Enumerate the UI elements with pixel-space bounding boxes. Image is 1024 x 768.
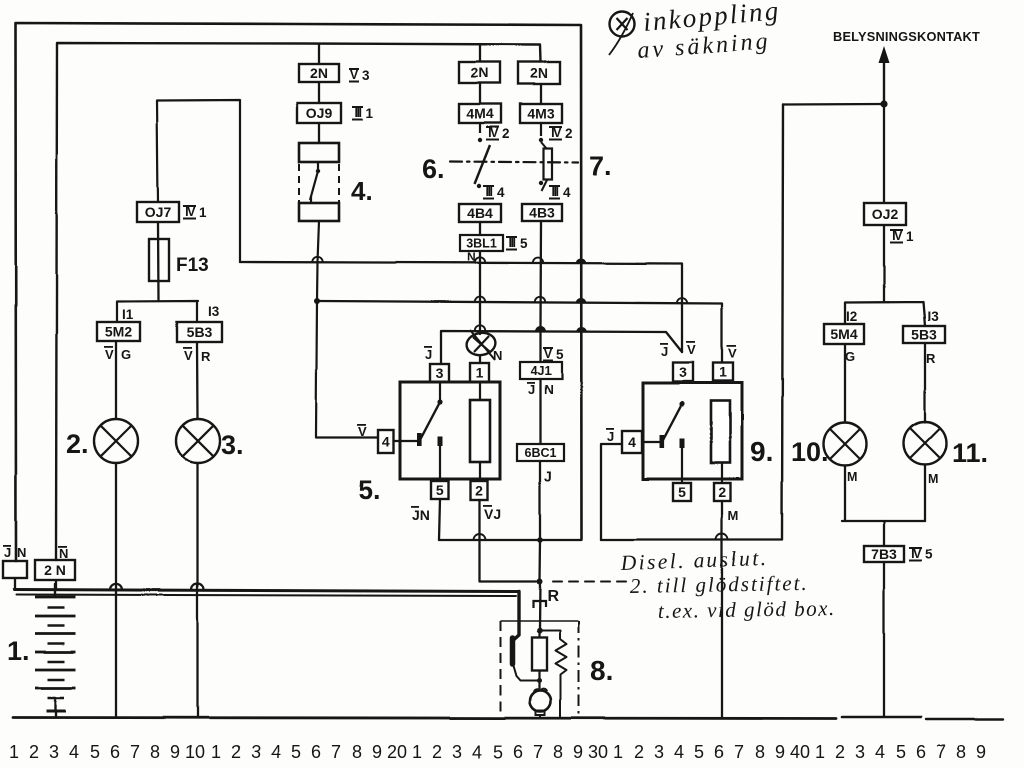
line3 (y331) to element5 pin3 and element9 pin3 [441,331,682,364]
svg-text:2 N: 2 N [44,562,66,578]
lamp 2 [94,419,138,463]
svg-text:M: M [928,472,938,486]
svg-text:1: 1 [412,742,422,762]
svg-text:3: 3 [49,742,59,762]
dashed wire to note text [553,581,626,583]
resistor (rect) element8 [532,638,547,671]
svg-text:9: 9 [775,742,785,762]
svg-text:6: 6 [110,742,120,762]
svg-text:1: 1 [719,364,727,380]
svg-text:V: V [350,68,359,82]
connector 4B3 [522,204,562,221]
svg-text:6: 6 [513,742,523,762]
wire lamp11 down [924,465,926,521]
svg-text:3.: 3. [221,430,244,460]
svg-text:V: V [358,424,367,439]
line1 (y262) to element9 pin3 [240,262,682,352]
wire right vertical to lighting line [782,105,783,540]
svg-text:R: R [201,349,211,364]
battery 1 [35,597,76,717]
element 5 (switch unit) [400,382,500,481]
label III4 (sw7) [549,185,571,200]
svg-text:20: 20 [387,742,407,762]
battery tap [54,584,56,597]
label IV1 (OJ7) [183,205,207,220]
svg-text:7: 7 [130,742,140,762]
svg-text:III: III [355,106,362,120]
svg-text:5: 5 [436,482,444,498]
wire relay output down to element5 pin4 [316,221,378,438]
wire 5M4 to lamp10 [844,344,846,422]
svg-text:2: 2 [475,483,483,499]
J line y540 (right) [601,538,782,540]
svg-text:8: 8 [553,742,563,762]
svg-text:J: J [607,429,614,444]
svg-text:4B3: 4B3 [529,205,555,221]
inner border wire (N net) [56,43,541,560]
svg-text:3: 3 [679,364,687,380]
svg-text:I3: I3 [927,309,939,324]
svg-text:6: 6 [311,742,321,762]
wire: inner border to 2N (4M4 col) [479,44,481,62]
svg-text:2N: 2N [530,65,548,81]
svg-text:1: 1 [199,205,207,220]
connector JN (empty box) [3,561,27,578]
connector 2N (4M3 column) [518,62,560,84]
svg-text:J: J [4,545,11,560]
label IV2 (4M3) [549,126,573,141]
svg-text:5: 5 [556,347,564,362]
label V5 (4J1) [543,347,564,362]
wire OJ2 down [883,225,885,302]
connector OJ7 [137,202,179,222]
wire lamp3 to ground bus [196,463,198,716]
ruler scale numbers [9,742,986,762]
svg-text:2: 2 [502,126,510,141]
svg-text:5: 5 [694,742,704,762]
wire 5B3 to lamp11 [924,343,926,422]
svg-text:G: G [121,347,131,362]
element 8 dashed enclosure [501,621,579,718]
svg-text:7: 7 [734,742,744,762]
svg-text:10.: 10. [791,437,829,467]
svg-text:3: 3 [452,742,462,762]
svg-text:1: 1 [476,365,484,381]
svg-text:9.: 9. [750,436,773,467]
label III4 (sw6) [483,185,505,200]
connector 4J1 [520,362,562,379]
svg-text:1: 1 [366,106,374,121]
connector OJ2 [864,203,906,225]
svg-text:3: 3 [436,365,444,381]
circled X annotation [609,12,635,56]
label IV1 (OJ2) [890,229,914,244]
svg-text:9: 9 [372,742,382,762]
junction VJ/R wire [537,579,543,585]
wire 5M2 to lamp2 [115,341,117,419]
svg-text:7: 7 [533,742,543,762]
wire [540,84,542,104]
element 9 (switch unit) [643,383,742,483]
svg-text:5: 5 [678,484,686,500]
pin 4 (element9) [622,431,642,453]
connector 5M2 [97,322,140,341]
svg-text:6.: 6. [422,154,445,184]
svg-text:V: V [687,342,696,357]
label IV5 (7B3) [909,547,933,562]
svg-text:40: 40 [790,742,810,762]
svg-text:7.: 7. [589,151,612,181]
svg-text:4: 4 [271,742,281,762]
svg-text:4: 4 [563,185,571,200]
svg-text:3: 3 [855,742,865,762]
svg-text:N: N [493,348,502,363]
svg-text:11.: 11. [952,438,988,468]
wire 5B3 to lamp3 [196,342,199,419]
wire pin2 (VJ) down and right [480,500,537,582]
svg-text:N: N [17,545,26,560]
wire: inner border to 2N (relay col) [318,44,320,64]
pin 2 (element9) [714,483,731,501]
svg-text:5: 5 [896,742,906,762]
svg-text:4: 4 [69,742,79,762]
svg-text:J: J [544,468,552,484]
wire lamp10 down [844,466,846,521]
svg-text:4J1: 4J1 [531,364,552,378]
outer border wire (J net) [16,23,582,561]
connector 5M4 [824,324,864,344]
T split to 5M2 / 5B3 [117,301,198,322]
crossover bumps [312,257,322,262]
svg-text:III: III [552,185,559,199]
svg-text:5B3: 5B3 [911,327,937,343]
wire J to element9 pin4 [601,444,622,540]
heavy vertical + contact bar (element8 feed) [514,592,520,641]
svg-text:1: 1 [9,742,19,762]
svg-text:V: V [105,347,114,362]
connector 5B3 (right) [903,326,945,343]
svg-text:9: 9 [170,742,180,762]
svg-text:3BL1: 3BL1 [466,237,497,251]
svg-text:N: N [59,546,68,561]
T split to 5M4 / 5B3 [845,302,925,326]
svg-text:4M4: 4M4 [466,106,493,122]
svg-text:M: M [728,508,739,523]
wire 4B3 down [539,221,542,330]
svg-text:III: III [509,236,516,250]
svg-text:5: 5 [291,742,301,762]
svg-text:2: 2 [565,126,573,141]
svg-text:8.: 8. [590,655,613,686]
svg-text:30: 30 [588,742,608,762]
lamp 10 [824,423,867,466]
relay 4 [299,143,339,221]
svg-text:t.ex. vid glöd box.: t.ex. vid glöd box. [658,596,836,623]
connector 3BL1 [460,235,503,251]
dash-dot switch line 6/7 [450,162,578,163]
svg-text:2: 2 [634,742,644,762]
wire loop from line1 over to OJ7 [157,100,240,262]
svg-text:I2: I2 [846,309,857,324]
svg-text:N: N [544,382,553,397]
junction: relay wire / line2 [314,298,320,304]
svg-text:3: 3 [362,68,370,83]
connector 7B3 [864,546,904,562]
switch 6 [475,123,491,188]
wire 7B3 to bus [883,562,885,717]
svg-text:8: 8 [352,742,362,762]
pin 1 (element5) [470,363,489,382]
svg-text:M: M [847,470,857,484]
connector 6BC1 [517,444,564,461]
svg-text:VJ: VJ [484,506,501,522]
wire lamp2 to ground bus [115,463,117,716]
wire OJ7 through fuse [157,222,160,301]
label IV2 (4M4) [486,126,510,141]
junction at OJ2 tap [880,100,887,107]
label III5 [506,236,528,251]
svg-text:5.: 5. [358,475,381,505]
svg-text:10: 10 [185,742,205,762]
pin 5 (element9) [673,483,691,501]
fuse F13 [149,239,169,281]
pin 3 (element9) [673,363,693,382]
wire N down to lamp symbol [479,251,481,334]
svg-text:2: 2 [835,742,845,762]
svg-text:4: 4 [382,434,390,450]
connector 4M4 [459,104,501,123]
switch 7 (contact with bar) [539,123,552,191]
svg-text:3: 3 [251,742,261,762]
svg-text:III: III [486,185,493,199]
junction resistor/zigzag [537,628,543,634]
svg-text:4B4: 4B4 [467,205,493,221]
wire down to 4J1 [539,330,541,362]
svg-text:4: 4 [875,742,885,762]
svg-text:5: 5 [90,742,100,762]
connector OJ9 [297,103,341,123]
svg-text:2N: 2N [310,65,328,81]
svg-text:1: 1 [906,229,914,244]
heavy feed line to glow contact [14,590,519,592]
crossed-out lamp symbol at element5 pin1 [465,331,497,358]
svg-text:G: G [845,349,855,364]
svg-text:8: 8 [956,742,966,762]
wire down to OJ2 [883,104,885,203]
arrow to BELYSNINGSKONTAKT [883,62,885,104]
svg-text:1: 1 [211,742,221,762]
wire pin4 to contact [394,440,418,442]
svg-text:J: J [661,344,668,359]
pin 4 (element5) [378,430,394,453]
svg-text:6BC1: 6BC1 [525,446,557,460]
junction at y540 line [537,537,543,543]
wire pin5 down [439,499,440,540]
lamp 3 [176,419,220,463]
wire 2N box down [55,580,57,589]
svg-text:1.: 1. [7,636,30,666]
label III1 [352,106,374,121]
wire element9 pin2 (M) to bus [721,501,723,717]
pin 5 (element5) [431,481,449,499]
svg-text:R: R [926,351,936,366]
svg-text:2. till glödstiftet.: 2. till glödstiftet. [630,571,809,598]
svg-text:9: 9 [976,742,986,762]
J line y540 (left) [439,539,582,541]
wire 4J1 to 6BC1 [539,379,541,444]
wire [479,83,481,104]
connector R (staple symbol) [533,601,546,608]
svg-text:8: 8 [755,742,765,762]
connector 4M3 [520,104,562,123]
label V3 [349,68,370,83]
wire 6BC1 down to J line [539,461,541,540]
svg-text:5B3: 5B3 [187,324,213,340]
wire JN box down [14,578,16,589]
ground bus main [13,718,836,719]
zigzag resistor element8 [540,631,567,718]
svg-text:2: 2 [718,484,726,500]
svg-text:2: 2 [231,742,241,762]
wire to 7B3 [883,521,885,546]
wire into pin1 [479,356,481,363]
svg-text:6: 6 [916,742,926,762]
svg-text:4: 4 [628,434,636,450]
svg-text:3: 3 [654,742,664,762]
svg-text:6: 6 [714,742,724,762]
svg-text:V: V [184,348,193,363]
wire OJ9-relay [318,123,320,143]
connector 5B3 [177,322,222,342]
motor element8 [530,689,551,718]
wire joining lamps [842,520,925,522]
svg-text:V: V [544,347,553,361]
wire down to VJ junction [538,540,541,582]
svg-text:2N: 2N [471,65,489,81]
svg-text:I3: I3 [208,304,220,319]
ground bus segment 3 [926,718,1003,720]
svg-text:8: 8 [150,742,160,762]
connector 2N (4M4 column) [459,62,500,83]
svg-text:5M2: 5M2 [105,324,132,340]
svg-text:9: 9 [573,742,583,762]
svg-text:1: 1 [815,742,825,762]
svg-text:R: R [547,588,559,605]
svg-text:7B3: 7B3 [871,546,897,562]
connector 4B4 [459,204,501,222]
svg-text:4.: 4. [351,176,373,206]
svg-text:V: V [728,346,737,361]
ground bus segment 2 [842,716,921,719]
svg-text:J: J [425,347,432,362]
pin 2 (element5) [471,481,488,500]
pin 3 (element5) [430,364,449,382]
svg-text:4: 4 [497,185,505,200]
svg-text:F13: F13 [176,255,209,276]
svg-text:1: 1 [613,742,623,762]
svg-text:7: 7 [331,742,341,762]
svg-text:7: 7 [936,742,946,762]
lamp 11 [904,422,947,465]
svg-text:OJ2: OJ2 [872,206,899,222]
svg-text:2: 2 [432,742,442,762]
svg-text:5M4: 5M4 [830,326,857,342]
svg-text:4: 4 [674,742,684,762]
svg-text:BELYSNINGSKONTAKT: BELYSNINGSKONTAKT [833,29,980,44]
connector 2N (battery) [35,560,75,580]
svg-text:5: 5 [925,547,933,562]
svg-text:JN: JN [412,507,430,523]
svg-text:J: J [528,382,535,397]
wire R down [538,582,541,630]
svg-text:2.: 2. [66,429,89,459]
svg-text:5: 5 [493,742,503,762]
wire to lighting switch tap [783,103,884,106]
svg-text:2: 2 [29,742,39,762]
junction at motor top [537,678,542,683]
svg-text:4M3: 4M3 [527,106,554,122]
line2 (y302) to element9 pin1 [317,301,722,363]
svg-text:I1: I1 [122,307,134,322]
svg-text:5: 5 [520,236,528,251]
wire 2N-OJ9 [318,82,320,103]
svg-text:4: 4 [472,742,482,762]
wire 4B4-3BL1 [479,222,481,235]
svg-text:OJ9: OJ9 [306,105,333,121]
svg-text:OJ7: OJ7 [145,204,172,220]
wire pin4 to contact [642,441,659,443]
connector 2N (relay column) [299,64,339,82]
pin 1 (element9) [713,363,733,381]
